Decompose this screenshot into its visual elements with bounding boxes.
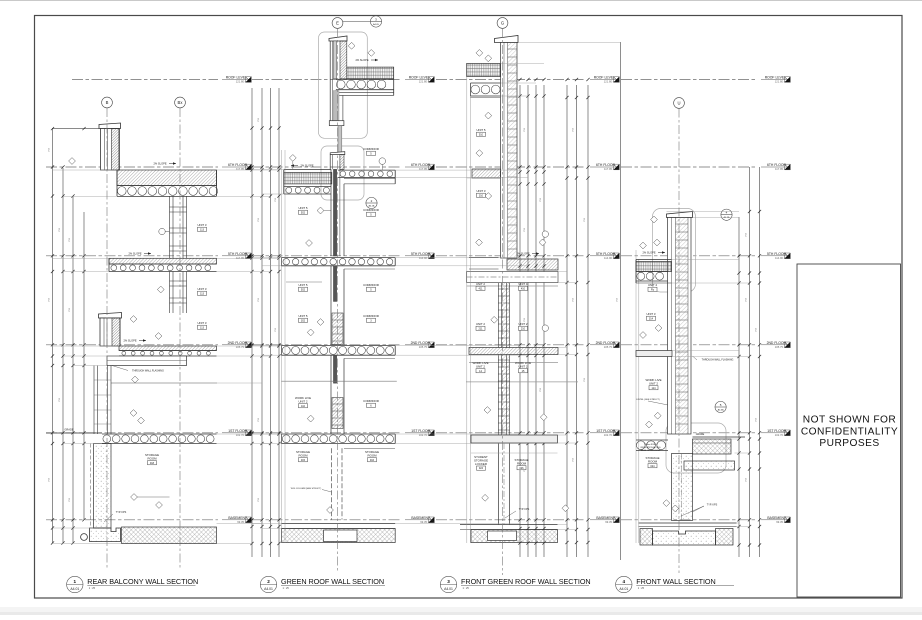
svg-text:117.95 m: 117.95 m [604, 167, 616, 171]
svg-text:113: 113 [200, 292, 205, 295]
svg-text:E: E [336, 21, 339, 26]
svg-text:ROOF LEVEL: ROOF LEVEL [765, 76, 786, 80]
svg-text:U: U [677, 101, 680, 106]
svg-text:114.90 m: 114.90 m [419, 256, 431, 260]
svg-text:A4.01: A4.01 [70, 587, 79, 591]
svg-text:2750: 2750 [258, 418, 260, 422]
svg-text:CORRIDOR: CORRIDOR [363, 147, 379, 151]
section 3 wall below 1st [498, 443, 500, 525]
svg-text:2750: 2750 [258, 218, 260, 222]
section 2 wall 2nd-1st [330, 355, 332, 434]
svg-text:UNIT 5: UNIT 5 [298, 206, 307, 210]
section 2 wall 6th-5th [330, 169, 332, 256]
svg-text:2% SLOPE: 2% SLOPE [642, 251, 655, 255]
grid line B [106, 108, 108, 570]
svg-text:2% SLOPE: 2% SLOPE [128, 252, 141, 256]
sheet top edge [0, 0, 922, 2]
svg-text:3: 3 [447, 579, 450, 584]
drain pipe [81, 534, 88, 541]
svg-text:FRONT WALL SECTION: FRONT WALL SECTION [636, 577, 715, 586]
section 1 gravel strip [122, 527, 217, 544]
section 2 roof parapet wall [329, 41, 331, 121]
section 4 parapet coping [667, 212, 693, 218]
svg-text:BASEMENT: BASEMENT [228, 516, 247, 520]
svg-text:2: 2 [267, 579, 270, 584]
svg-text:UNIT 5: UNIT 5 [298, 283, 307, 287]
section 3 dropped band 5th [467, 272, 559, 283]
svg-text:102.70 m: 102.70 m [775, 433, 787, 437]
svg-text:UNIT 4: UNIT 4 [518, 282, 527, 286]
svg-text:A4.05: A4.05 [373, 23, 379, 26]
svg-text:1ST FLOOR: 1ST FLOOR [767, 429, 786, 433]
svg-text:PURPOSES: PURPOSES [819, 438, 879, 449]
svg-text:ROOM: ROOM [299, 453, 309, 457]
svg-text:2750: 2750 [584, 378, 586, 382]
viewer bottom strip [0, 607, 922, 615]
svg-text:1 : 25: 1 : 25 [89, 587, 96, 590]
svg-text:117.95 m: 117.95 m [419, 167, 431, 171]
svg-text:CONFIDENTIALITY: CONFIDENTIALITY [801, 426, 898, 437]
svg-text:114.90 m: 114.90 m [604, 256, 616, 260]
svg-text:UNIT 3: UNIT 3 [476, 189, 485, 193]
section 1 parapet wall 2nd [100, 318, 120, 346]
svg-text:2750: 2750 [69, 238, 71, 242]
svg-text:A4.3A: A4.3A [718, 408, 725, 411]
section 3 gravel and footing [471, 530, 558, 543]
section 1 wall below 6th slab [169, 196, 171, 258]
section 2 green roof band [347, 67, 394, 79]
svg-text:1 : 25: 1 : 25 [283, 587, 290, 590]
section 4 plaza crosshatch [693, 439, 732, 454]
keynote diamonds section 4 [654, 412, 661, 419]
svg-text:113: 113 [200, 228, 205, 231]
svg-text:018: 018 [150, 462, 155, 465]
detail callout 5/A4.3A [715, 401, 726, 412]
title section 2 [260, 576, 276, 592]
svg-text:5TH FLOOR: 5TH FLOOR [411, 252, 431, 256]
svg-text:INSULATION ALONG: INSULATION ALONG [640, 446, 660, 449]
svg-text:2% SLOPE: 2% SLOPE [300, 164, 313, 168]
section 1 footing [90, 528, 121, 542]
svg-text:TYP. KPS: TYP. KPS [519, 508, 530, 511]
section 2 wall below roof slab [333, 91, 339, 121]
section 3 slab 1st [471, 435, 558, 443]
extension lines section 4 [672, 259, 740, 261]
svg-text:UNIT 2: UNIT 2 [649, 381, 658, 385]
svg-text:114: 114 [652, 387, 657, 390]
section 3 slab 2nd [469, 348, 558, 355]
svg-text:THROUGH WALL FLASHING: THROUGH WALL FLASHING [702, 359, 734, 362]
svg-text:UNIT 5: UNIT 5 [476, 128, 485, 132]
section 2 slab 5th [281, 257, 395, 259]
svg-text:1 : 25: 1 : 25 [463, 587, 470, 590]
svg-text:102.70 m: 102.70 m [236, 433, 248, 437]
grade line [46, 432, 102, 434]
dimension lines right of section 3 [566, 85, 568, 557]
keynote circle 30 [159, 228, 165, 234]
section 1 exterior wall below 2nd [93, 366, 95, 435]
grid bubble U [674, 98, 685, 109]
svg-text:2750: 2750 [573, 298, 575, 302]
section 4 detail boundary upper [653, 209, 696, 293]
section 2 corridor slab 6th [338, 169, 395, 171]
extension lines section 1 [53, 169, 118, 171]
svg-text:NOT SHOWN FOR: NOT SHOWN FOR [803, 415, 896, 426]
svg-text:CORRIDOR: CORRIDOR [363, 314, 379, 318]
keynote diamond s2 6th [289, 155, 296, 162]
section 2 roof parapet coping [329, 36, 347, 41]
section 2 slab 2nd [281, 345, 395, 347]
svg-text:A4.2A: A4.2A [369, 204, 375, 207]
extension lines section 2 [252, 169, 284, 171]
section 4 basement slab [639, 522, 737, 524]
svg-text:2750: 2750 [540, 388, 542, 392]
section 1 soffit box 2nd [107, 356, 187, 366]
section 3 green roof band [467, 64, 501, 77]
section 2 left edge extension lines [280, 150, 282, 543]
svg-text:BASEMENT: BASEMENT [767, 516, 786, 520]
svg-text:UNIT 3: UNIT 3 [646, 312, 655, 316]
svg-text:2750: 2750 [69, 498, 71, 502]
svg-text:LINTEL (SEE STRUCT): LINTEL (SEE STRUCT) [636, 399, 660, 401]
svg-text:UNIT 3: UNIT 3 [197, 287, 206, 291]
svg-text:2750: 2750 [746, 298, 748, 302]
svg-text:ROOM: ROOM [648, 459, 658, 463]
svg-text:2750: 2750 [524, 128, 526, 132]
svg-text:411: 411 [479, 287, 484, 290]
svg-text:121.80 m: 121.80 m [604, 80, 616, 84]
grid line G [502, 29, 504, 576]
extension lines section 3 [558, 271, 567, 273]
svg-text:2ND FLOOR: 2ND FLOOR [767, 341, 787, 345]
title section 4 [616, 576, 632, 592]
svg-text:2% SLOPE: 2% SLOPE [355, 58, 368, 62]
section 2 basement slab and gravel [282, 523, 396, 525]
svg-text:ROOM: ROOM [517, 461, 527, 465]
section 3 parapet coping [495, 36, 519, 43]
svg-text:1ST FLOOR: 1ST FLOOR [596, 429, 615, 433]
section 1 slab 1st floor [102, 433, 217, 435]
dimension lines between sections 2 and 3 [519, 85, 521, 557]
svg-text:2750: 2750 [275, 198, 277, 202]
svg-text:2% SLOPE: 2% SLOPE [123, 339, 136, 343]
grid bubble B [102, 97, 113, 108]
svg-text:6TH FLOOR: 6TH FLOOR [596, 163, 616, 167]
svg-text:5TH FLOOR: 5TH FLOOR [228, 252, 248, 256]
svg-text:GRADE: GRADE [696, 433, 705, 436]
svg-text:2750: 2750 [49, 478, 51, 482]
dimension lines right of section 4 [738, 217, 740, 557]
section 2 upstand 6th [329, 155, 331, 170]
section 1 parapet wall 6th [101, 129, 120, 171]
svg-text:210: 210 [521, 327, 526, 330]
dimension lines left of section 1 [52, 128, 54, 543]
section 2 detail boundary upper [319, 32, 368, 138]
svg-text:2ND FLOOR: 2ND FLOOR [596, 341, 616, 345]
svg-text:B: B [106, 100, 109, 105]
section 1 basement wall [94, 444, 112, 529]
section 4 gravel strips [640, 529, 653, 546]
svg-text:TYP. KPS: TYP. KPS [116, 511, 127, 514]
section 3 roof slab [471, 82, 501, 84]
section 2 sill cap [329, 121, 344, 126]
svg-text:2750: 2750 [540, 198, 542, 202]
section 4 slab 2nd left [636, 351, 672, 357]
svg-text:314: 314 [649, 317, 654, 320]
svg-text:105.75 m: 105.75 m [604, 345, 616, 349]
floor level lines [72, 79, 218, 81]
svg-text:102.70 m: 102.70 m [419, 433, 431, 437]
svg-text:THROUGH WALL FLASHING: THROUGH WALL FLASHING [132, 370, 164, 373]
section 3 slab 5th [469, 257, 499, 259]
keynote diamonds section 2 [348, 42, 355, 49]
section 3 slab 6th left [472, 169, 501, 178]
svg-text:A4.01: A4.01 [619, 587, 628, 591]
detail callout 2/A4.2A [366, 197, 377, 208]
svg-text:2750: 2750 [573, 128, 575, 132]
svg-text:4: 4 [623, 579, 626, 584]
svg-text:114.90 m: 114.90 m [236, 256, 248, 260]
keynote diamonds section 1 [69, 158, 76, 165]
svg-text:6TH FLOOR: 6TH FLOOR [767, 163, 787, 167]
svg-text:UNIT 2: UNIT 2 [476, 322, 485, 326]
title section 3 [440, 576, 456, 592]
svg-text:2750: 2750 [617, 298, 619, 302]
svg-text:FRONT GREEN ROOF WALL SECTION: FRONT GREEN ROOF WALL SECTION [461, 577, 591, 586]
grid bubble G [497, 18, 508, 29]
dimension lines between sections 1 and 2 [251, 88, 253, 557]
svg-text:2750: 2750 [59, 228, 61, 232]
grid bubble E [332, 18, 343, 29]
svg-text:121.80 m: 121.80 m [775, 80, 787, 84]
svg-text:UNIT 2: UNIT 2 [476, 282, 485, 286]
svg-text:121.80 m: 121.80 m [419, 80, 431, 84]
grade note 4 [693, 436, 746, 438]
svg-text:BASEMENT: BASEMENT [596, 516, 615, 520]
svg-text:015: 015 [301, 459, 306, 462]
section 1 balcony slab 2nd floor [119, 346, 217, 351]
svg-text:502: 502 [301, 288, 306, 291]
section 2 W10 column below 1st [331, 448, 333, 519]
svg-text:G: G [501, 21, 504, 26]
section 1 parapet coping 2nd [99, 313, 122, 319]
svg-text:A4.01: A4.01 [264, 587, 273, 591]
section 4 green roof slab 5th [636, 259, 672, 261]
svg-text:LOCKER: LOCKER [475, 462, 487, 466]
svg-text:ROOF LEVEL: ROOF LEVEL [594, 76, 615, 80]
svg-text:113: 113 [200, 326, 205, 329]
svg-text:2750: 2750 [258, 118, 260, 122]
svg-text:410: 410 [521, 287, 526, 290]
svg-text:GRADE: GRADE [64, 428, 73, 432]
svg-text:2750: 2750 [746, 478, 748, 482]
svg-text:5TH FLOOR: 5TH FLOOR [767, 252, 787, 256]
grid line Bx [179, 108, 181, 570]
section 3 basement slab [460, 524, 558, 526]
grid line U [678, 109, 680, 574]
svg-text:UNIT 2: UNIT 2 [298, 399, 307, 403]
section 4 slab 1st left [636, 439, 668, 441]
section 3 wall 5th-2nd [502, 283, 510, 348]
svg-text:5TH FLOOR: 5TH FLOOR [596, 252, 616, 256]
confidentiality box [797, 264, 901, 597]
svg-text:105.75 m: 105.75 m [775, 345, 787, 349]
detail callout 4/A4.3A [721, 209, 732, 220]
svg-text:2750: 2750 [573, 458, 575, 462]
svg-text:UNIT 2: UNIT 2 [518, 322, 527, 326]
section 3 wall 2nd-1st [502, 355, 510, 436]
section 4 left edge extension lines [635, 250, 637, 543]
svg-text:GREEN ROOF WALL SECTION: GREEN ROOF WALL SECTION [281, 577, 384, 586]
svg-text:ROOF LEVEL: ROOF LEVEL [226, 76, 247, 80]
svg-text:2750: 2750 [258, 298, 260, 302]
grid bubble Bx [175, 97, 186, 108]
section 2 roof slab [336, 78, 394, 80]
svg-text:024: 024 [650, 465, 655, 468]
svg-text:2750: 2750 [584, 218, 586, 222]
svg-text:2750: 2750 [49, 298, 51, 302]
svg-text:310: 310 [479, 194, 484, 197]
svg-text:1ST FLOOR: 1ST FLOOR [411, 429, 430, 433]
section 4 foundation wall [672, 454, 693, 521]
svg-text:CORRIDOR: CORRIDOR [363, 283, 379, 287]
title section 1 [67, 576, 83, 592]
svg-text:024: 024 [479, 467, 484, 470]
svg-text:2750: 2750 [258, 498, 260, 502]
svg-text:2ND FLOOR: 2ND FLOOR [411, 341, 431, 345]
svg-text:510: 510 [479, 133, 484, 136]
svg-text:ROOM: ROOM [148, 456, 158, 460]
svg-text:BASEMENT: BASEMENT [411, 516, 430, 520]
section 2 terrace 6th left [284, 169, 331, 171]
svg-text:TYP. KPS: TYP. KPS [707, 504, 718, 507]
svg-text:1ST FLOOR: 1ST FLOOR [228, 429, 247, 433]
svg-text:2% SLOPE: 2% SLOPE [153, 162, 166, 166]
svg-text:ROOF LEVEL: ROOF LEVEL [409, 76, 430, 80]
svg-text:016: 016 [370, 459, 375, 462]
section 3 left edge extension lines [466, 64, 468, 544]
section 1 balcony slab 5th floor [109, 258, 217, 264]
section 2 detail boundary mid [321, 146, 364, 200]
section 2 upstand 6th coping [330, 152, 345, 155]
svg-text:102.70 m: 102.70 m [604, 433, 616, 437]
section 1 top dimension line [53, 128, 100, 130]
svg-text:211: 211 [479, 327, 484, 330]
svg-text:BASE OF BUILDING: BASE OF BUILDING [641, 449, 661, 452]
detail callout 3/A4.05 [343, 21, 370, 23]
svg-text:110: 110 [301, 405, 306, 408]
svg-text:121.80 m: 121.80 m [236, 80, 248, 84]
svg-text:2750: 2750 [756, 328, 758, 332]
section 1 parapet coping 6th [99, 123, 121, 129]
svg-text:2750: 2750 [756, 418, 758, 422]
svg-text:105.75 m: 105.75 m [236, 345, 248, 349]
svg-text:UNIT 3: UNIT 3 [197, 321, 206, 325]
svg-text:CORRIDOR: CORRIDOR [363, 208, 379, 212]
section 3 upper cavity wall [501, 43, 518, 259]
section 2 wall 5th-2nd [330, 266, 332, 345]
section 4 step band [684, 461, 735, 470]
svg-text:2750: 2750 [524, 228, 526, 232]
svg-text:2750: 2750 [49, 148, 51, 152]
svg-text:2ND FLOOR: 2ND FLOOR [228, 341, 248, 345]
svg-text:114.90 m: 114.90 m [775, 256, 787, 260]
svg-text:2750: 2750 [59, 398, 61, 402]
svg-text:ROOM: ROOM [368, 453, 378, 457]
svg-text:UNIT 4: UNIT 4 [648, 283, 657, 287]
keynote circle s2 corridor [379, 158, 386, 165]
svg-text:117.95 m: 117.95 m [236, 167, 248, 171]
svg-text:78mm RIGID: 78mm RIGID [644, 444, 657, 446]
svg-text:2750: 2750 [746, 233, 748, 237]
svg-text:6TH FLOOR: 6TH FLOOR [411, 163, 431, 167]
svg-text:UNIT 5: UNIT 5 [298, 314, 307, 318]
section 4 detail boundary lower [666, 423, 726, 473]
svg-text:2750: 2750 [275, 328, 277, 332]
svg-text:UNIT 3: UNIT 3 [197, 223, 206, 227]
section 2 window strip [338, 126, 342, 153]
svg-text:2750: 2750 [69, 308, 71, 312]
svg-text:CORRIDOR: CORRIDOR [363, 399, 379, 403]
svg-text:502: 502 [301, 211, 306, 214]
svg-text:A4.01: A4.01 [444, 587, 453, 591]
keynote circles section 3 [542, 231, 548, 237]
svg-text:UNIT 2: UNIT 2 [476, 364, 485, 368]
svg-text:REAR BALCONY WALL SECTION: REAR BALCONY WALL SECTION [87, 577, 198, 586]
section 4 footing [653, 531, 716, 545]
svg-text:2% SLOPE: 2% SLOPE [516, 252, 529, 256]
section 1 wall below 5th slab [169, 272, 171, 314]
section 1 balcony slab 6th floor [117, 170, 217, 186]
svg-text:UNIT 2: UNIT 2 [518, 364, 527, 368]
section 2 slab 1st [281, 433, 395, 435]
svg-text:1: 1 [74, 579, 77, 584]
svg-text:6TH FLOOR: 6TH FLOOR [228, 163, 248, 167]
grid line E [337, 29, 339, 573]
keynote diamonds section 3 [476, 50, 483, 57]
svg-text:302: 302 [301, 319, 306, 322]
svg-text:026: 026 [519, 467, 524, 470]
svg-text:W10 COLUMN (SEE STRUCT): W10 COLUMN (SEE STRUCT) [291, 488, 322, 490]
section 4 wall [668, 218, 692, 435]
svg-text:1 : 25: 1 : 25 [638, 587, 645, 590]
svg-text:117.95 m: 117.95 m [775, 167, 787, 171]
